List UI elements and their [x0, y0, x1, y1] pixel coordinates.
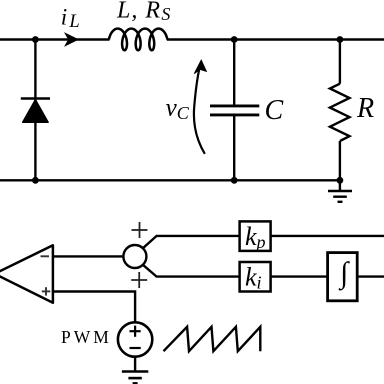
plus sign lower (ki path): [131, 279, 147, 281]
resistor R zigzag: [330, 84, 350, 141]
ground main bar2: [333, 195, 347, 197]
capacitor C top plate: [210, 104, 259, 107]
svg-text:C: C: [265, 95, 284, 126]
op-amp comparator triangle: [0, 245, 53, 302]
wire diagonal to ki: [143, 265, 240, 277]
wire noninverting input: [53, 292, 135, 323]
wire top rail right segment: [167, 38, 384, 40]
wire bottom rail: [0, 179, 340, 181]
inductor L,RS coil: [109, 29, 167, 51]
block integrator: [328, 253, 358, 301]
ground PWM bar3: [133, 382, 138, 384]
ground main stub: [339, 180, 341, 191]
plus sign upper (kp path): [132, 229, 148, 231]
op-amp plus sign: [42, 290, 51, 292]
wire ki to integrator: [271, 275, 328, 277]
current arrow i_L: [65, 33, 78, 45]
node junction bottom-capacitor: [231, 177, 238, 184]
node junction top-resistor: [337, 36, 344, 43]
wire diagonal to kp: [143, 236, 240, 248]
node junction top-left: [32, 36, 39, 43]
block kp: [240, 221, 271, 251]
svg-text:vC: vC: [166, 95, 190, 123]
svg-text:L, RS: L, RS: [116, 0, 170, 24]
wire integrator output: [357, 275, 384, 277]
capacitor C bottom plate: [210, 113, 259, 116]
node junction bottom-resistor: [337, 177, 344, 184]
wire resistor branch bottom: [339, 141, 341, 180]
wire capacitor branch top: [233, 40, 235, 106]
svg-text:PWM: PWM: [61, 327, 112, 347]
summing node circle: [123, 245, 146, 268]
wire kp output: [271, 235, 384, 237]
wire diode branch vertical: [34, 40, 36, 181]
block ki: [240, 262, 271, 292]
diode D triangle: [23, 100, 48, 123]
svg-text:R: R: [356, 93, 374, 124]
voltage arrow v_C curved: [194, 68, 205, 154]
wire capacitor branch bottom: [233, 115, 235, 180]
wire inverting input: [53, 255, 124, 257]
PWM plus sign: [130, 330, 141, 332]
wire resistor branch top: [339, 40, 341, 84]
sawtooth waveform: [164, 327, 261, 351]
ground main bar1: [328, 190, 352, 192]
PWM minus sign: [130, 347, 141, 349]
svg-text:iL: iL: [61, 4, 80, 32]
node junction bottom-left: [32, 177, 39, 184]
ground main bar3: [338, 201, 343, 203]
ground PWM bar1: [122, 370, 148, 373]
wire top rail left segment: [0, 38, 110, 40]
ground PWM stub: [134, 357, 136, 372]
node junction top-capacitor: [231, 36, 238, 43]
op-amp minus sign: [41, 255, 50, 257]
diode D cathode bar: [21, 97, 50, 100]
source PWM circle: [118, 322, 152, 356]
ground PWM bar2: [128, 377, 141, 380]
